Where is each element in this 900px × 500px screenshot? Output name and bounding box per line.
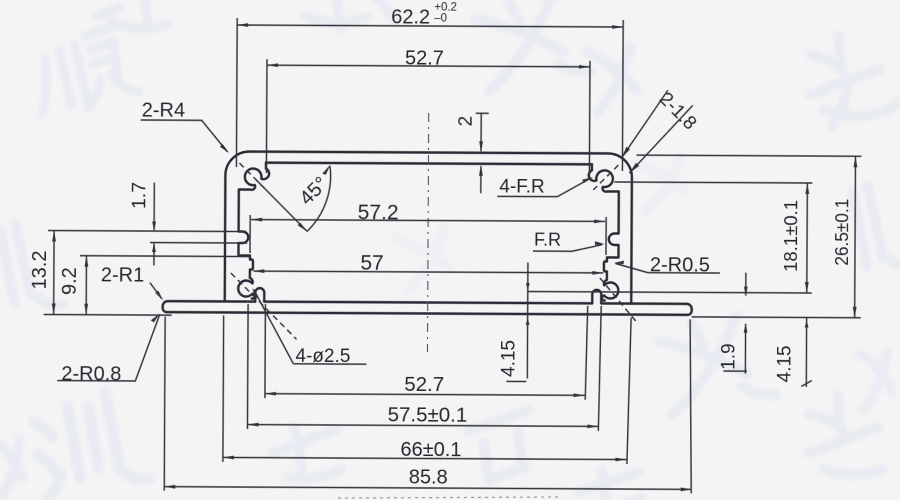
dim 18.1 +-0.1 right bbox=[528, 182, 813, 293]
dim 62.2 top: line and arrows bbox=[236, 18, 623, 171]
svg-text:2-R1: 2-R1 bbox=[101, 264, 144, 286]
right inner wall with screw bosses (mirror) bbox=[588, 164, 619, 300]
watermark partial top edge 1 bbox=[95, 0, 167, 40]
right clip tab on base plate bbox=[592, 290, 601, 304]
dim 9.2 left bbox=[80, 256, 250, 316]
svg-text:52.7: 52.7 bbox=[404, 373, 444, 396]
dim 57 inner bbox=[253, 271, 603, 273]
dim 57.5 +-0.1 bottom bbox=[247, 304, 601, 431]
watermark partial bottom-left edge bbox=[0, 436, 31, 496]
profile outer shell bbox=[225, 151, 632, 303]
watermark partial top 2 bbox=[304, 0, 392, 39]
svg-text:85.8: 85.8 bbox=[409, 466, 448, 488]
svg-text:4.15: 4.15 bbox=[774, 345, 795, 382]
dim 52.7 top: line and arrows bbox=[266, 59, 590, 177]
svg-text:2-R0.8: 2-R0.8 bbox=[61, 363, 121, 385]
watermark partial bottom 1 bbox=[268, 417, 347, 486]
watermark char top-left bbox=[26, 24, 140, 120]
watermark partial bottom edge center bbox=[575, 462, 646, 500]
svg-text:4-F.R: 4-F.R bbox=[499, 176, 545, 197]
svg-text:62.2: 62.2 bbox=[391, 6, 430, 28]
dim 13.2 left bbox=[44, 230, 246, 315]
svg-text:57.5±0.1: 57.5±0.1 bbox=[388, 403, 468, 426]
left inner wall with screw bosses bbox=[238, 163, 269, 299]
watermark faint center-right bbox=[634, 154, 690, 212]
svg-text:1.7: 1.7 bbox=[128, 182, 150, 209]
svg-text:52.7: 52.7 bbox=[405, 47, 444, 69]
svg-text:57: 57 bbox=[360, 252, 383, 275]
watermark char top-center (large cross strokes) bbox=[469, 0, 592, 97]
svg-text:2: 2 bbox=[456, 116, 477, 127]
45 deg dashed centerline top-left boss bbox=[239, 163, 264, 188]
svg-text:26.5±0.1: 26.5±0.1 bbox=[832, 199, 852, 266]
svg-text:F.R: F.R bbox=[534, 230, 561, 250]
watermark partial right edge bbox=[848, 179, 900, 278]
watermark faint mid bbox=[396, 226, 456, 290]
dim 26.5 +-0.1 right bbox=[636, 155, 862, 318]
label 2-1.8 with two leaders bbox=[621, 90, 692, 173]
45 deg angle: arc bbox=[307, 166, 331, 232]
svg-text:66±0.1: 66±0.1 bbox=[400, 439, 461, 461]
45 deg angle: ray bbox=[256, 180, 307, 231]
scan speckle line bottom edge bbox=[338, 497, 560, 498]
left clip tab on base plate bbox=[255, 288, 264, 302]
dim 1.9 bbox=[723, 273, 747, 374]
dim 57.2 inner bbox=[250, 215, 606, 255]
dim 4.15 left bbox=[506, 262, 528, 381]
watermark partial bottom 2 bbox=[467, 410, 544, 484]
svg-text:18.1±0.1: 18.1±0.1 bbox=[781, 200, 801, 272]
watermark char top-right bbox=[798, 23, 900, 129]
svg-text:1.9: 1.9 bbox=[718, 343, 739, 370]
45 deg dashed centerline bottom-left boss bbox=[231, 273, 297, 339]
dim 4.15 right bbox=[801, 317, 812, 387]
svg-text:4.15: 4.15 bbox=[498, 340, 519, 377]
watermark char bottom-left bbox=[25, 387, 150, 500]
dim 52.7 bottom bbox=[265, 304, 588, 400]
watermark partial left edge bbox=[0, 216, 64, 315]
45 deg dashed centerline bottom-right boss bbox=[600, 278, 637, 322]
45 deg dashed centerline top-right boss bbox=[593, 165, 618, 190]
dim 1.7 left bbox=[150, 183, 247, 267]
base plate bbox=[163, 301, 692, 315]
svg-text:–0: –0 bbox=[434, 13, 447, 25]
svg-text:57.2: 57.2 bbox=[358, 201, 399, 224]
svg-text:2-R4: 2-R4 bbox=[142, 100, 185, 122]
watermark partial right edge lower bbox=[850, 347, 898, 410]
dim 66 +-0.1 bottom bbox=[223, 315, 631, 464]
watermark char bottom-right bbox=[797, 387, 889, 487]
watermark partial top 3 bbox=[582, 41, 644, 113]
dim 85.8 bottom bbox=[164, 317, 692, 494]
dim 2 (wall thickness) bbox=[475, 113, 488, 193]
profile inner ceiling bbox=[266, 163, 592, 165]
svg-text:9.2: 9.2 bbox=[59, 267, 81, 295]
svg-text:13.2: 13.2 bbox=[29, 250, 51, 289]
watermark char right-mid (large) bbox=[652, 307, 775, 419]
vertical centerline bbox=[427, 113, 428, 352]
